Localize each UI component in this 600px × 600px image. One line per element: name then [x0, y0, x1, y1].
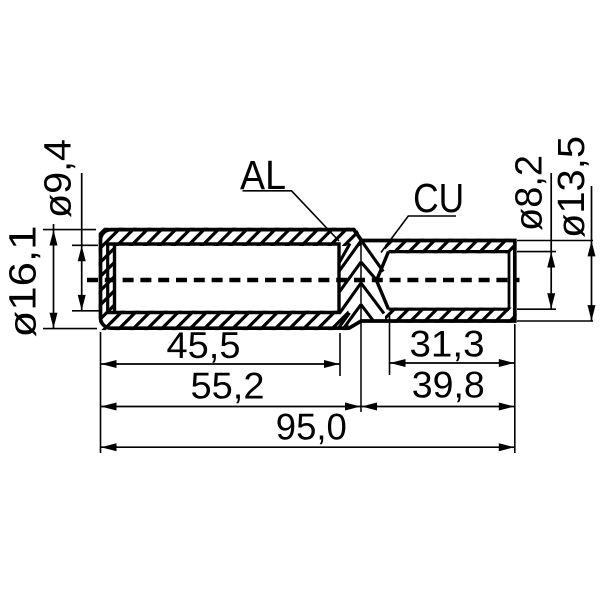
AL shoulder chamfer top: [354, 230, 362, 241]
svg-text:ø13,5: ø13,5: [551, 136, 593, 238]
dimension ext line x389.5 (CU bore depth): [389, 313, 391, 375]
section hatching (45 deg) of AL and CU walls: [0, 215, 600, 340]
dimension o16,1 ext lines: [43, 229, 96, 231]
dimension o13,5 ext lines: [517, 240, 593, 242]
svg-text:55,2: 55,2: [191, 366, 265, 407]
CU bore cone bottom: [377, 252, 389, 310]
AL bore entry line: [106, 244, 109, 313]
dimension 45,5: [101, 363, 341, 365]
AL sleeve outer contour: [101, 230, 362, 329]
dimension o9,4 ext lines: [72, 244, 98, 246]
svg-text:ø9,4: ø9,4: [38, 139, 80, 218]
svg-text:39,8: 39,8: [412, 365, 485, 406]
dimension 39,8: [361, 406, 515, 408]
weld herringbone CU side: [361, 241, 384, 321]
svg-text:ø16,1: ø16,1: [3, 226, 45, 338]
dimension o9,4 line: [81, 173, 83, 311]
dimension ext line right x514.8: [514, 324, 516, 453]
CU bore end chamfer line: [508, 252, 511, 310]
svg-text:95,0: 95,0: [276, 407, 347, 448]
CU bore top edge: [389, 250, 510, 253]
dimension o13,5 line: [591, 186, 593, 321]
dimension 31,3: [390, 362, 515, 364]
CU stub outer contour: [361, 241, 515, 322]
dimension 95,0: [101, 446, 515, 448]
svg-text:ø8,2: ø8,2: [509, 155, 551, 231]
svg-text:31,3: 31,3: [410, 324, 485, 365]
dimension o8,2 ext lines: [517, 251, 556, 253]
AL bore (inner): [106, 244, 339, 313]
dimension 55,2: [101, 406, 362, 408]
centerline (dashed axis): [87, 278, 520, 282]
dimension ext line x340 (AL bore depth): [339, 333, 341, 376]
dimension o8,2 line: [550, 173, 552, 309]
weld herringbone AL side: [339, 241, 361, 328]
CU bore bottom edge: [389, 308, 510, 311]
AL bore left edge: [113, 244, 116, 313]
dimension o16,1 line: [53, 224, 55, 329]
friction weld line: [360, 241, 362, 412]
svg-text:CU: CU: [413, 175, 464, 221]
svg-text:45,5: 45,5: [167, 325, 241, 366]
dimension ext line left x100: [100, 332, 102, 453]
